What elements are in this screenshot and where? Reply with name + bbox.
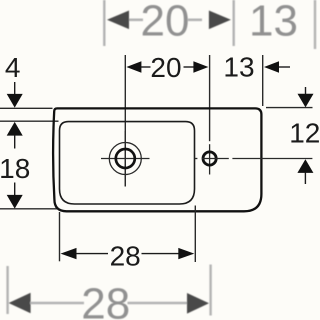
dimension 13: right arrow <box>264 61 279 72</box>
dimension 13: tail line <box>279 66 290 68</box>
svg-text:12: 12 <box>289 118 320 149</box>
faded ghost bottom arrow left <box>9 293 31 314</box>
basin inner rim <box>60 122 195 204</box>
faded ghost arrow left <box>107 11 129 30</box>
faded ghost dimension top: extension line left <box>103 0 105 46</box>
dimension 20: line left <box>141 66 151 68</box>
svg-text:13: 13 <box>249 0 298 45</box>
faded ghost bottom dim line right <box>128 302 191 305</box>
faded ghost extension line mid <box>232 0 234 46</box>
faded ghost bottom arrow right <box>187 293 209 314</box>
faded ghost bottom extension line right <box>209 265 211 316</box>
svg-text:13: 13 <box>223 52 254 83</box>
dimension 28: right arrow <box>178 248 194 259</box>
faded ghost arrow right <box>209 11 231 30</box>
dimension 18: bottom reference line <box>0 208 58 210</box>
faded ghost dim line right of 20 <box>188 18 202 21</box>
faded ghost bottom dim line left <box>30 302 84 305</box>
dimension 20: line right <box>184 66 196 68</box>
faded ghost extension line right <box>314 0 316 49</box>
tap hole circle <box>203 152 216 165</box>
dimension 13: tap centerline lower segment <box>209 144 211 174</box>
dimension 4: bottom reference line <box>0 120 59 122</box>
faded ghost dim line left of 20 <box>129 18 143 21</box>
svg-text:28: 28 <box>110 241 141 272</box>
dimension 18: up arrow <box>7 122 23 149</box>
dimension 18: down arrow <box>7 183 23 209</box>
dimension 13: right extension line <box>262 55 264 106</box>
dimension 12: down arrow <box>298 87 314 107</box>
basin outer outline <box>53 108 261 211</box>
drain crosshair horizontal <box>101 158 150 160</box>
svg-text:20: 20 <box>141 0 190 45</box>
dimension 28: right extension line <box>194 206 196 263</box>
dimension 12: top reference line <box>266 107 313 109</box>
svg-text:4: 4 <box>5 52 21 83</box>
svg-text:20: 20 <box>150 52 181 83</box>
dimension 13: center extension line (tap centerline) <box>209 55 211 141</box>
dimension 28: line left <box>76 253 108 255</box>
dimension 20: right arrow <box>193 61 208 72</box>
dimension 28: left extension line <box>59 212 61 261</box>
dimension 4: down arrow <box>7 82 23 108</box>
drain inner circle <box>116 149 135 168</box>
svg-text:18: 18 <box>0 153 30 184</box>
dimension 28: line right <box>142 253 180 255</box>
drain crosshair vertical <box>124 131 126 187</box>
dimension 12: up arrow <box>297 159 313 184</box>
dimension 20: left arrow <box>126 61 141 72</box>
dimension 20: left extension line (drain centerline) <box>124 55 126 187</box>
dimension 28: left arrow <box>61 248 77 259</box>
tap hole centerline horizontal <box>195 158 313 160</box>
drain outer circle <box>109 143 141 175</box>
faded ghost dimension bottom: left extension line <box>6 266 8 314</box>
dimension 4: top reference line <box>0 107 53 109</box>
svg-text:28: 28 <box>81 279 130 320</box>
